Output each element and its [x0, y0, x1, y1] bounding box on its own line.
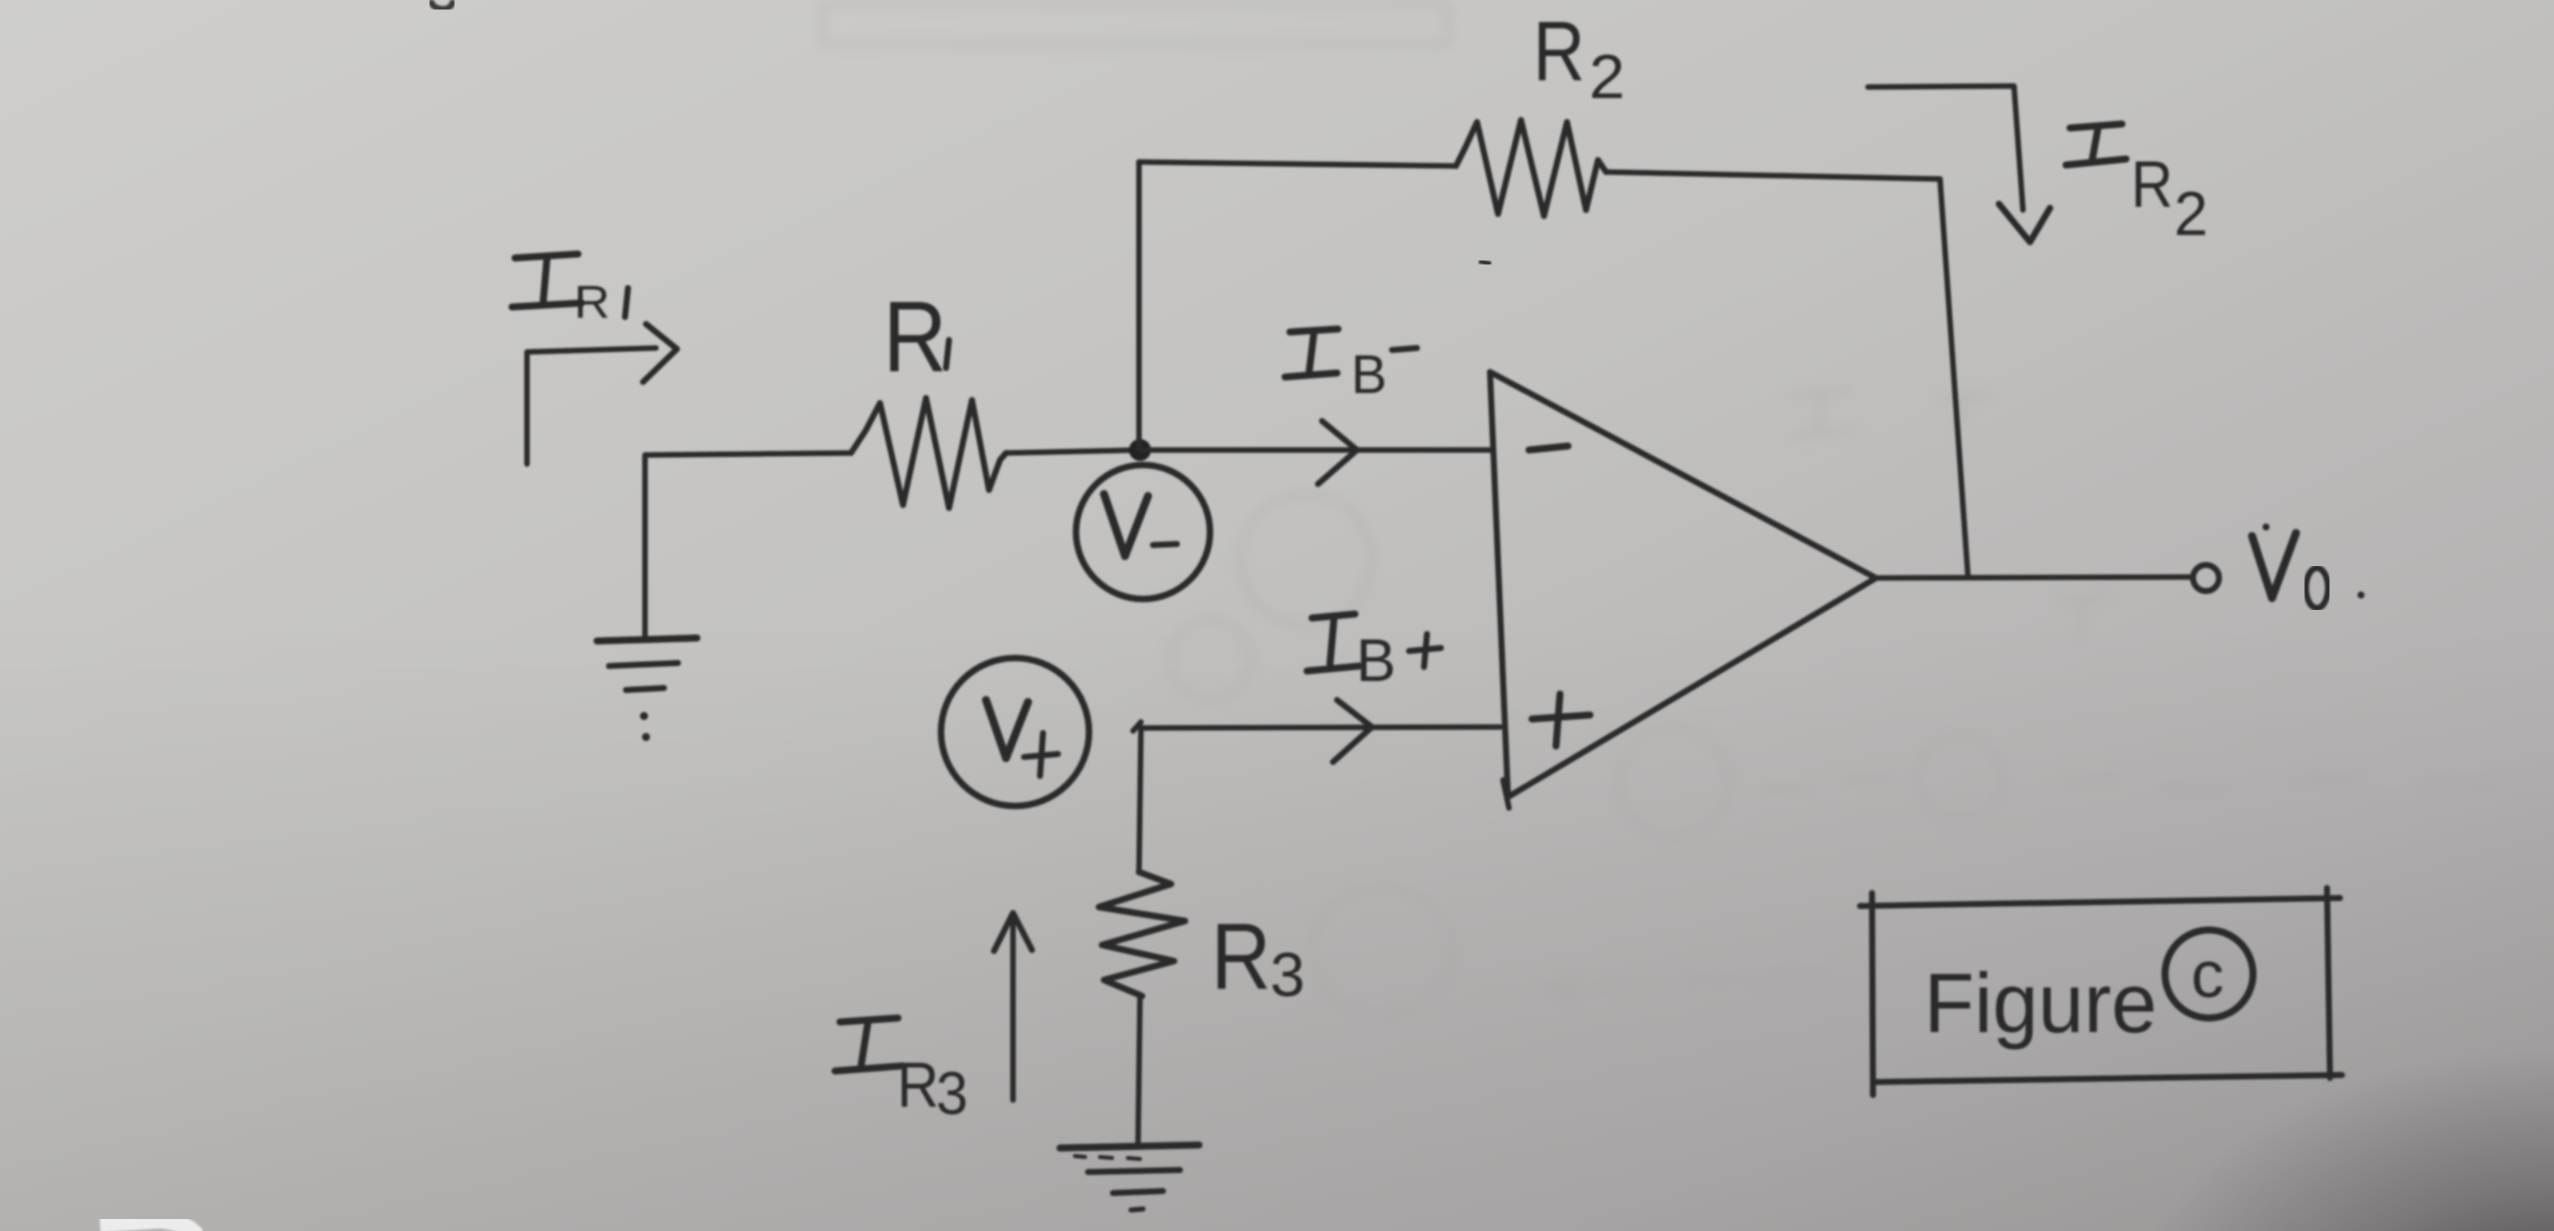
- svg-text:3: 3: [936, 1060, 968, 1127]
- resistor R1: [851, 398, 1006, 508]
- svg-text:2: 2: [2174, 180, 2208, 249]
- ground (bottom): [1060, 1145, 1199, 1148]
- svg-text:R: R: [1533, 4, 1585, 98]
- figure box: [1860, 888, 2342, 1095]
- resistor R2: [1456, 120, 1606, 216]
- circled c: [2165, 930, 2253, 1018]
- svg-text:3: 3: [1270, 941, 1305, 1010]
- label IR3 (serif I): [840, 1018, 898, 1022]
- wire: non-inverting input with IB+ arrow: [1141, 727, 1500, 728]
- svg-text:R: R: [2131, 147, 2173, 221]
- wire: R2 to feedback corner: [1606, 172, 1940, 179]
- wire: horizontal to R1: [645, 453, 851, 455]
- node junction dot: [1129, 439, 1151, 461]
- label Vo subscript o (drawn oval): [2306, 568, 2328, 608]
- op-amp minus sign: [1529, 446, 1568, 450]
- top-left partial glyph: [431, 0, 453, 9]
- wire: node up to feedback: [1136, 162, 1142, 449]
- wire: feedback top run: [1139, 162, 1456, 166]
- svg-text:R: R: [1211, 904, 1271, 1009]
- digit strokes (hand-written 1s): [625, 288, 949, 368]
- label IR2 (serif I): [2070, 124, 2122, 128]
- label V+: [986, 700, 1006, 758]
- resistor R3: [1099, 872, 1185, 996]
- svg-text:R: R: [897, 1049, 939, 1121]
- svg-text:B: B: [1351, 343, 1387, 405]
- wire: input corner with IR1 arrow: [527, 348, 656, 464]
- bottom-left white glyph: [100, 1220, 198, 1231]
- node V+ circle: [941, 658, 1089, 806]
- wire: feedback down to output junction: [1940, 179, 1968, 577]
- wire: V+ corner down to R3: [1139, 727, 1141, 872]
- label R1 digit 1: [946, 340, 949, 368]
- ground (left): [597, 638, 697, 641]
- svg-text:2: 2: [1589, 43, 1625, 112]
- faint bleed-through smudges: [822, 4, 2500, 1090]
- svg-text:Figure: Figure: [1924, 956, 2157, 1050]
- label IB- (serif I): [1290, 329, 1338, 332]
- wire: output to Vo terminal: [1878, 577, 2192, 578]
- label IR1 digit 1: [625, 288, 628, 317]
- wire: R3 to ground: [1138, 996, 1140, 1146]
- wire: R1 to node V-: [1006, 450, 1140, 453]
- terminal Vo circle: [2193, 565, 2219, 591]
- arrow IR3: [1010, 915, 1016, 1100]
- svg-text:c: c: [2191, 937, 2224, 1011]
- wire: node to inverting input with IB- arrow: [1140, 447, 1490, 453]
- label IR1 (serif I): [515, 254, 578, 258]
- svg-text:B: B: [1356, 627, 1396, 694]
- arrow IR2: [1868, 86, 2023, 210]
- label Vo: [2252, 536, 2272, 598]
- svg-text:R: R: [883, 281, 947, 393]
- label V-: [1104, 494, 1125, 556]
- small stray mark under R2: [1479, 261, 1491, 264]
- op-amp plus sign: [1532, 715, 1590, 719]
- label IB+ (serif I): [1312, 614, 1355, 618]
- node V- circle: [1076, 465, 1210, 599]
- svg-text:R: R: [574, 276, 610, 328]
- op-amp U1 triangle: [1490, 372, 1876, 797]
- wire: left vertical to ground: [642, 456, 648, 639]
